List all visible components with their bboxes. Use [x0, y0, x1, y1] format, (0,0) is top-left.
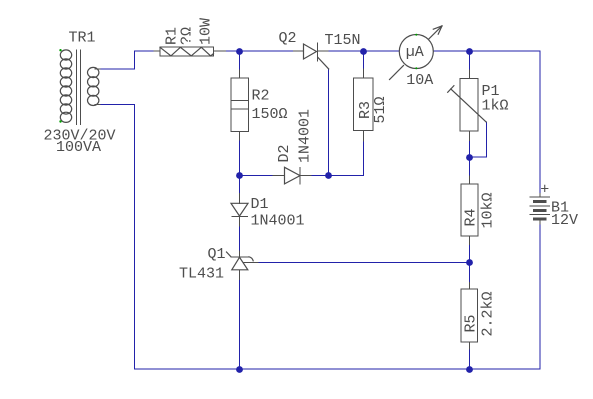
svg-text:R5: R5 [463, 314, 480, 332]
svg-text:TL431: TL431 [179, 266, 224, 283]
diode D1 [231, 194, 248, 227]
wire D2 cathode to R3 bottom [311, 141, 363, 176]
node junction R2/D2/D1 [236, 172, 243, 179]
svg-text:D1: D1 [251, 196, 269, 213]
wire D2 anode [240, 175, 274, 177]
node junction R5 bottom [466, 366, 473, 373]
svg-text:100VA: 100VA [56, 139, 101, 156]
potentiometer P1 [448, 70, 487, 141]
svg-text:D2: D2 [276, 144, 293, 162]
wire junction to R4 top [468, 157, 470, 176]
wire Q1 ref to R4/R5 junction [258, 262, 469, 264]
resistor R3 [354, 69, 374, 141]
svg-text:Q1: Q1 [208, 246, 226, 263]
svg-text:10A: 10A [406, 72, 433, 89]
node junction R4/R5 [466, 259, 473, 266]
node junction R3 top [360, 48, 367, 55]
wire R2 top stub [239, 51, 241, 70]
wire Q1 anode to bottom rail [239, 280, 241, 370]
resistor R2 [231, 70, 249, 140]
node junction Q1 bottom [236, 366, 243, 373]
svg-text:R4: R4 [463, 208, 480, 226]
resistor R5 [461, 283, 478, 350]
pin dot primary bottom [59, 120, 61, 122]
svg-text:?Ω: ?Ω [179, 27, 196, 45]
svg-text:Q2: Q2 [279, 30, 297, 47]
svg-text:R2: R2 [252, 88, 270, 105]
wire top rail to battery plus [469, 51, 540, 194]
wire D1 to Q1 [239, 226, 241, 251]
svg-text:150Ω: 150Ω [252, 106, 288, 123]
svg-text:T15N: T15N [325, 32, 361, 49]
svg-text:TR1: TR1 [69, 30, 96, 47]
pin dot meter top [415, 34, 417, 36]
svg-text:2.2kΩ: 2.2kΩ [480, 291, 497, 336]
pin dot primary top [59, 49, 61, 51]
thyristor Q2 [294, 43, 329, 69]
battery B1 [530, 194, 549, 225]
node junction P1 wiper / R4 [466, 154, 473, 161]
wire D1 top stub [239, 176, 241, 194]
ammeter M1 [390, 26, 443, 80]
svg-text:10W: 10W [198, 18, 215, 45]
svg-text:1N4001: 1N4001 [251, 213, 305, 230]
wire bottom rail [240, 368, 470, 370]
pin dot meter bottom [415, 67, 417, 69]
wire R5 top stub [468, 263, 470, 283]
wire P1 bottom stub [468, 141, 470, 158]
node junction P1 top [466, 48, 473, 55]
wire R3 top stub [362, 51, 364, 69]
wire bottom rail to transformer [99, 105, 240, 369]
shunt regulator Q1 TL431 [227, 251, 259, 280]
svg-text:µA: µA [406, 44, 424, 61]
svg-text:+: + [540, 181, 549, 198]
wire Q2 gate down [328, 69, 330, 176]
wire battery minus to bottom rail [469, 224, 540, 369]
wire P1 wiper [469, 122, 486, 157]
wire R1 to Q2 anode [226, 50, 294, 52]
svg-text:1kΩ: 1kΩ [482, 98, 509, 115]
svg-text:10kΩ: 10kΩ [480, 192, 497, 228]
wire R4 bottom stub [468, 245, 470, 263]
transformer TR1 [60, 50, 100, 125]
node junction gate/D2 [325, 172, 332, 179]
wire P1 top stub [468, 51, 470, 70]
wire R5 bottom stub [468, 349, 470, 369]
wire meter to P1 junction [434, 50, 470, 52]
resistor R1 [154, 47, 226, 56]
svg-text:51Ω: 51Ω [372, 96, 389, 123]
wire Q2 cathode to meter [328, 50, 399, 52]
resistor R4 [461, 176, 478, 245]
svg-text:12V: 12V [551, 212, 578, 229]
svg-text:1N4001: 1N4001 [297, 109, 314, 163]
wire secondary-top to R1 [99, 51, 154, 69]
diode D2 [273, 167, 311, 184]
wire R2 bottom to D junction [239, 140, 241, 176]
node junction R1/R2 [236, 48, 243, 55]
